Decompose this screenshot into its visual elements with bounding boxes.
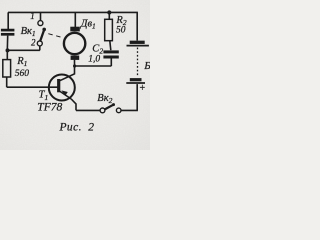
svg-text:Б: Б [143,60,150,72]
wire: battery bottom down to bottom rail [136,84,138,110]
svg-text:560: 560 [15,69,29,79]
capacitor C1 top plate [1,29,15,32]
wire: C2 bottom to collector node wire [110,59,112,67]
switch Vk2 left terminal [100,108,105,113]
battery B cell2 short thick plate [130,78,142,81]
capacitor C2 bottom plate [103,56,118,59]
resistor R1 body [3,60,11,77]
svg-text:1: 1 [30,11,35,21]
transistor T1 emitter lead [60,91,71,99]
svg-text:TF78: TF78 [37,102,62,114]
mechanical dash link Vk1 to motor [48,34,63,38]
wire: bottom rail left segment [76,109,100,111]
svg-text:2: 2 [31,37,36,47]
switch Vk2 lever [105,105,114,110]
wire: top-right corner down to battery [136,12,138,40]
wire: top rail [8,11,138,13]
transistor T1 base bar [57,79,60,92]
wire: motor bottom down to collector node [74,60,76,66]
svg-text:1,0: 1,0 [88,54,100,64]
wire: R1 bottom to base wire [6,77,8,87]
motor Dv1 body [64,33,85,54]
svg-text:50: 50 [116,25,126,35]
switch Vk1 lever [40,29,44,41]
wire: base lead to transistor [7,86,58,88]
node: R2 junction on top rail [107,10,111,14]
switch Vk1 terminal 1 [38,21,43,26]
wire: left vertical upper [7,12,9,29]
battery B dotted middle link [137,48,139,78]
battery B cell1 short thick plate [130,41,145,44]
wire: stub from rail to switch Vk1 terminal 1 [40,12,42,20]
svg-text:+: + [140,83,146,94]
transistor T1 emitter arrowhead [61,90,67,95]
wire: horizontal from switch Vk1 to left branch [7,49,40,51]
wire: from Vk1 terminal 2 down [39,46,41,50]
resistor R2 body [105,19,113,40]
transistor T1 circle [49,75,75,101]
node: collector junction [73,64,76,67]
wire: R2 to C2 [110,41,111,51]
wire: bottom rail right segment [121,109,138,111]
capacitor C2 top plate [103,50,118,53]
switch Vk2 lever knob [112,103,115,106]
node: junction left [6,48,10,52]
switch Vk1 lever knob [42,28,46,32]
paper background [0,0,150,150]
svg-text:Рис.2: Рис.2 [59,122,95,134]
wire: emitter down to bottom rail [71,99,76,110]
wire: stub rail to R2 [108,12,110,19]
switch Vk1 terminal 2 [37,41,42,46]
motor Dv1 top brush tab [70,27,80,32]
capacitor C1 bottom plate [1,33,15,36]
battery B cell2 long thin plate [126,82,145,84]
wire: horizontal collector node to C2 [75,65,112,67]
wire: motor stub from rail [74,12,76,27]
motor Dv1 bottom brush tab [71,56,80,60]
wire: collector lead into transistor [60,66,75,81]
wire: left vertical mid [6,36,8,60]
battery B cell1 long thin plate [127,45,149,47]
switch Vk2 right terminal [116,108,121,113]
